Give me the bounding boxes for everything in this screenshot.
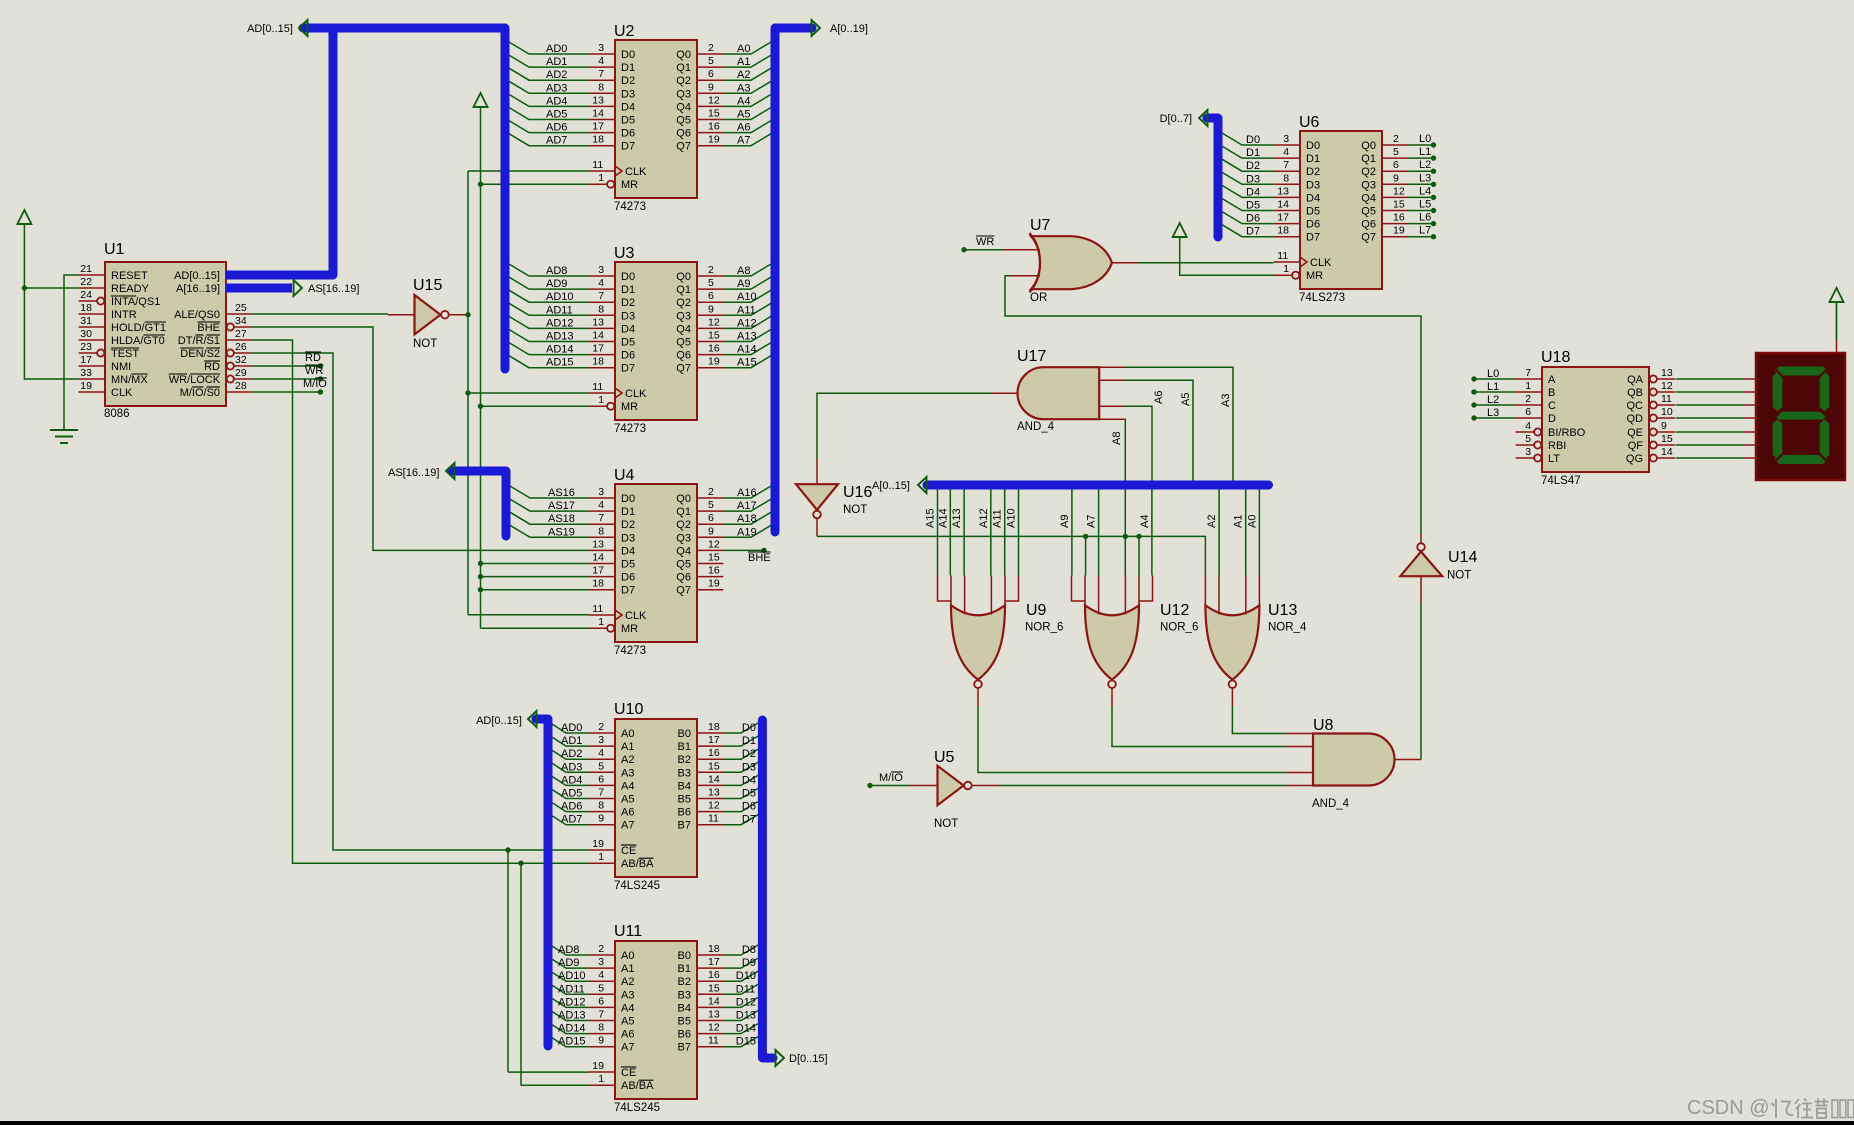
svg-text:WR/LOCK: WR/LOCK <box>169 374 221 386</box>
U10 pin B3 <box>697 771 723 773</box>
wire U18 output to display <box>1676 391 1743 393</box>
7seg pin stub <box>1750 378 1756 380</box>
wire bus tap AD4 to U10 A4 <box>552 776 589 785</box>
svg-text:A1: A1 <box>737 56 750 68</box>
wire U12 in2 drop <box>1085 536 1087 575</box>
svg-text:AD13: AD13 <box>558 1010 586 1022</box>
U17 input stub <box>1099 366 1126 368</box>
U6 pin D2 <box>1274 170 1300 172</box>
svg-text:16: 16 <box>708 121 720 133</box>
node MR net junction U3 <box>478 404 483 409</box>
svg-text:4: 4 <box>1525 420 1531 432</box>
svg-text:23: 23 <box>80 341 92 353</box>
wire bus tap AD15 to U11 A7 <box>552 1038 589 1047</box>
svg-text:14: 14 <box>592 108 604 120</box>
U10 pin A7 <box>589 824 615 826</box>
U18 left pin 5 RBI <box>1516 444 1535 446</box>
svg-text:L0: L0 <box>1419 133 1431 145</box>
svg-text:12: 12 <box>708 800 720 812</box>
svg-text:A7: A7 <box>737 135 750 147</box>
wire CLK net to U2 CLK <box>468 170 589 172</box>
wire U2 Q7 to bus tap A7 <box>723 134 771 146</box>
U9 input stub <box>964 576 966 615</box>
svg-text:19: 19 <box>592 1060 604 1072</box>
svg-text:BI/RBO: BI/RBO <box>1548 427 1586 439</box>
U4 pin D7 <box>589 589 615 591</box>
svg-text:D12: D12 <box>736 996 756 1008</box>
svg-text:B5: B5 <box>678 794 691 806</box>
svg-text:11: 11 <box>592 381 603 393</box>
U11 pin AB/BA <box>589 1084 615 1086</box>
wire WR net to U7 input1 <box>961 247 966 252</box>
svg-text:Q1: Q1 <box>676 506 691 518</box>
bus D[0..7] at U6 <box>1207 118 1218 237</box>
svg-text:AB/BA: AB/BA <box>621 858 654 870</box>
svg-text:1: 1 <box>1525 380 1531 392</box>
svg-text:QB: QB <box>1627 387 1643 399</box>
wire bus tap AD11 to U11 A3 <box>552 985 589 994</box>
svg-text:U16: U16 <box>843 484 872 501</box>
U2 pin Q0 <box>697 53 723 55</box>
svg-text:17: 17 <box>592 565 604 577</box>
svg-text:A6: A6 <box>737 122 750 134</box>
svg-text:2: 2 <box>1525 393 1531 405</box>
NOR gate U9 NOR_6 body <box>951 605 1005 679</box>
svg-text:18: 18 <box>592 578 604 590</box>
svg-text:7: 7 <box>598 787 604 799</box>
svg-text:CLK: CLK <box>625 610 647 622</box>
U7 input stubs <box>1004 249 1040 251</box>
wire MR net to U2 MR <box>481 183 589 185</box>
wire U4 Q0 to bus tap A16 <box>723 486 771 498</box>
svg-text:Q3: Q3 <box>676 532 691 544</box>
svg-text:D4: D4 <box>621 323 635 335</box>
svg-text:D2: D2 <box>1246 160 1260 172</box>
7seg segment g (middle) <box>1775 412 1827 420</box>
U1 left pin 33 <box>79 378 105 380</box>
wire U1 DT/R to U10 AB/BA and U11 AB/BA <box>252 340 588 863</box>
wire bus tap A12 down to NOR input <box>990 490 992 576</box>
U10 pin B7 <box>697 824 723 826</box>
svg-text:B4: B4 <box>678 1002 691 1014</box>
U10 pin B6 <box>697 811 723 813</box>
svg-text:A17: A17 <box>737 500 757 512</box>
svg-text:17: 17 <box>592 343 604 355</box>
svg-text:CLK: CLK <box>111 387 133 399</box>
wire bus tap A4 down to NOR input <box>1151 490 1153 576</box>
svg-text:AD4: AD4 <box>561 774 582 786</box>
svg-text:A1: A1 <box>1233 515 1245 528</box>
power VCC arrow <box>1173 223 1187 237</box>
U17 input stub <box>1099 405 1126 407</box>
svg-text:14: 14 <box>592 330 604 342</box>
wire U1 BHE to U4 D4 <box>252 327 588 550</box>
ground <box>50 429 78 431</box>
svg-text:D2: D2 <box>621 297 635 309</box>
wire U1 RESET to ground <box>64 275 79 430</box>
U2 pin MR <box>589 183 608 185</box>
svg-text:A2: A2 <box>1206 515 1218 528</box>
svg-text:MR: MR <box>621 623 638 635</box>
svg-text:HOLD/GT1: HOLD/GT1 <box>111 322 166 334</box>
svg-text:D6: D6 <box>742 801 756 813</box>
svg-text:11: 11 <box>708 1035 719 1047</box>
svg-text:5: 5 <box>708 499 714 511</box>
wire U10 B6 to bus tap D6 <box>723 802 758 812</box>
svg-text:U17: U17 <box>1017 348 1046 365</box>
wire U16 output horizontal net <box>817 536 1205 575</box>
wire U3 Q4 to bus tap A12 <box>723 316 771 328</box>
svg-text:D3: D3 <box>1306 179 1320 191</box>
node CE junction <box>505 847 510 852</box>
U12 input stub <box>1098 576 1100 615</box>
svg-text:M/IO/S0: M/IO/S0 <box>180 387 220 399</box>
inverter U5 NOT body <box>938 766 964 805</box>
wire bus tap D2 to U6 D2 <box>1222 159 1274 171</box>
U3 pin D1 <box>589 288 615 290</box>
svg-text:A0: A0 <box>621 950 634 962</box>
wire bus tap AS18 to U4 D2 <box>510 512 589 524</box>
svg-text:14: 14 <box>1661 446 1673 458</box>
svg-text:Q7: Q7 <box>676 141 691 153</box>
U18 right pin 14 QG <box>1650 454 1657 461</box>
wire U6 Q5 to L5 <box>1408 210 1431 212</box>
svg-text:15: 15 <box>1393 199 1405 211</box>
svg-text:14: 14 <box>708 995 720 1007</box>
bus terminal arrow AD[0..15] <box>299 20 308 36</box>
svg-text:13: 13 <box>592 538 604 550</box>
U3 pin D2 <box>589 301 615 303</box>
svg-text:A4: A4 <box>621 1002 634 1014</box>
U2 pin D7 <box>589 145 615 147</box>
svg-text:A18: A18 <box>737 513 757 525</box>
svg-text:31: 31 <box>80 315 92 327</box>
svg-text:8086: 8086 <box>104 408 130 420</box>
wire U18 output to display <box>1676 431 1743 433</box>
CPU U1 8086 body <box>105 262 226 406</box>
svg-text:13: 13 <box>1661 367 1673 379</box>
svg-text:A0: A0 <box>1246 515 1258 528</box>
wire U6 Q6 to L6 <box>1408 223 1431 225</box>
wire U5 output to U8 in4 <box>999 785 1286 787</box>
svg-text:15: 15 <box>1661 433 1673 445</box>
svg-text:CLK: CLK <box>1310 257 1332 269</box>
U11 pin CE <box>589 1071 615 1073</box>
wire bus tap A13 down to NOR input <box>963 490 965 576</box>
svg-text:AD9: AD9 <box>546 278 567 290</box>
U1 right pin 27 <box>226 339 252 341</box>
svg-text:D2: D2 <box>621 519 635 531</box>
U10 pin A2 <box>589 758 615 760</box>
svg-text:D: D <box>1548 413 1556 425</box>
wire U6 Q4 to L4 <box>1408 196 1431 198</box>
svg-text:18: 18 <box>708 721 720 733</box>
U17 input stub <box>1099 418 1126 420</box>
svg-text:12: 12 <box>708 538 720 550</box>
U5 output stub <box>972 785 999 787</box>
bus A[0..19] right vertical <box>775 28 812 532</box>
U17 input stub <box>1099 379 1126 381</box>
svg-text:D1: D1 <box>621 284 635 296</box>
svg-text:A4: A4 <box>621 780 634 792</box>
svg-text:Q3: Q3 <box>676 88 691 100</box>
svg-text:D9: D9 <box>742 957 756 969</box>
U6 pin Q0 <box>1382 144 1408 146</box>
svg-text:Q0: Q0 <box>676 493 691 505</box>
wire bus tap AD12 to U11 A4 <box>552 998 589 1007</box>
svg-text:U12: U12 <box>1160 602 1189 619</box>
svg-text:AD14: AD14 <box>546 344 574 356</box>
U17 output stub <box>991 392 1018 394</box>
svg-text:NMI: NMI <box>111 361 131 373</box>
svg-text:CE: CE <box>621 1067 636 1079</box>
U18 left pin 1 B <box>1516 391 1542 393</box>
svg-text:BHE: BHE <box>748 552 771 564</box>
svg-text:D10: D10 <box>736 970 756 982</box>
wire U6 Q7 to L7 <box>1408 236 1431 238</box>
svg-text:26: 26 <box>235 341 247 353</box>
svg-text:AD5: AD5 <box>546 109 567 121</box>
svg-text:D5: D5 <box>621 337 635 349</box>
svg-text:17: 17 <box>708 956 720 968</box>
svg-text:M/IO: M/IO <box>303 378 327 390</box>
svg-text:11: 11 <box>1661 393 1672 405</box>
svg-text:8: 8 <box>598 525 604 537</box>
wire bus tap D1 to U6 D1 <box>1222 146 1274 158</box>
svg-text:B0: B0 <box>678 950 691 962</box>
U15 output stub <box>449 314 466 316</box>
svg-text:U7: U7 <box>1030 217 1051 234</box>
svg-text:18: 18 <box>592 356 604 368</box>
IC U2 74273 body <box>615 40 697 198</box>
wire bus tap AD6 to U10 A6 <box>552 803 589 812</box>
svg-text:A16: A16 <box>737 487 757 499</box>
svg-text:AD4: AD4 <box>546 95 567 107</box>
svg-text:6: 6 <box>598 773 604 785</box>
svg-text:13: 13 <box>708 787 720 799</box>
svg-text:Q0: Q0 <box>676 271 691 283</box>
U2 pin Q4 <box>697 105 723 107</box>
wire U12 output to U8 in2 <box>1112 706 1286 747</box>
svg-text:8: 8 <box>1283 172 1289 184</box>
wire bus tap AD2 to U2 D2 <box>509 68 589 80</box>
svg-text:AS[16..19]: AS[16..19] <box>308 283 359 295</box>
svg-text:MR: MR <box>621 179 638 191</box>
U6 pin D0 <box>1274 144 1300 146</box>
svg-text:D2: D2 <box>1306 166 1320 178</box>
7seg segment b (top-right) <box>1820 372 1830 412</box>
wire U17 in3 from A6 <box>1126 406 1152 480</box>
U1 right pin 28 <box>226 391 252 393</box>
svg-text:2: 2 <box>708 264 714 276</box>
wire bus tap A15 down to NOR input <box>937 490 939 576</box>
wire U3 Q5 to bus tap A13 <box>723 330 771 342</box>
svg-text:NOR_6: NOR_6 <box>1160 622 1198 634</box>
svg-text:A10: A10 <box>737 291 757 303</box>
wire bus tap D4 to U6 D4 <box>1222 185 1274 197</box>
svg-text:CE: CE <box>621 845 636 857</box>
wire U1 WR with label <box>252 378 320 380</box>
wire VCC to U6 MR <box>1180 237 1274 275</box>
7-segment display body <box>1756 353 1845 480</box>
svg-text:1: 1 <box>598 851 604 863</box>
U10 pin B5 <box>697 798 723 800</box>
power VCC arrow <box>17 210 31 224</box>
U11 pin B5 <box>697 1020 723 1022</box>
svg-text:AB/BA: AB/BA <box>621 1080 654 1092</box>
svg-text:27: 27 <box>235 328 247 340</box>
wire bus tap AD10 to U3 D2 <box>509 290 589 302</box>
U10 pin A5 <box>589 798 615 800</box>
U1 left pin 19 <box>79 391 105 393</box>
svg-text:18: 18 <box>80 302 92 314</box>
U11 pin B6 <box>697 1033 723 1035</box>
svg-text:9: 9 <box>1661 420 1667 432</box>
U2 pin D0 <box>589 53 615 55</box>
wire U4 Q4 BHE output <box>723 549 764 551</box>
wire bus tap A7 down to NOR input <box>1098 490 1100 576</box>
svg-text:34: 34 <box>235 315 247 327</box>
svg-text:33: 33 <box>80 367 92 379</box>
U11 pin A6 <box>589 1033 615 1035</box>
svg-text:AD1: AD1 <box>546 56 567 68</box>
svg-text:D2: D2 <box>742 748 756 760</box>
svg-text:Q0: Q0 <box>1361 140 1376 152</box>
svg-text:D11: D11 <box>736 983 755 995</box>
bus D[0..15] right of U10/U11 <box>762 720 773 1058</box>
U11 pin B0 <box>697 954 723 956</box>
U11 pin A5 <box>589 1020 615 1022</box>
svg-text:A14: A14 <box>937 508 949 528</box>
svg-text:29: 29 <box>235 367 247 379</box>
wire U2 Q0 to bus tap A0 <box>723 42 771 54</box>
wire U17 in4 A8 net down to U12 <box>1124 419 1127 575</box>
wire bus tap AD7 to U2 D7 <box>509 134 589 146</box>
wire U4 Q2 to bus tap A18 <box>723 512 771 524</box>
svg-text:4: 4 <box>598 969 604 981</box>
U11 pin B2 <box>697 980 723 982</box>
svg-text:D3: D3 <box>742 761 756 773</box>
svg-text:2: 2 <box>598 721 604 733</box>
7seg pin stub <box>1750 404 1756 406</box>
svg-text:B2: B2 <box>678 754 691 766</box>
U13 input stub <box>1218 576 1220 615</box>
svg-text:D13: D13 <box>736 1010 756 1022</box>
svg-text:QG: QG <box>1626 453 1643 465</box>
7seg pin stub <box>1750 444 1756 446</box>
svg-text:U3: U3 <box>614 245 635 262</box>
svg-text:B2: B2 <box>678 976 691 988</box>
svg-text:D1: D1 <box>742 735 756 747</box>
svg-text:4: 4 <box>598 747 604 759</box>
svg-text:A15: A15 <box>925 508 937 528</box>
wire L2 to U18 <box>1471 402 1476 407</box>
wire U10 B2 to bus tap D2 <box>723 749 758 759</box>
svg-text:A7: A7 <box>621 1042 634 1054</box>
svg-text:HLDA/GT0: HLDA/GT0 <box>111 335 165 347</box>
svg-text:5: 5 <box>708 55 714 67</box>
U6 pin Q7 <box>1382 236 1408 238</box>
svg-text:6: 6 <box>708 68 714 80</box>
7seg pin stub <box>1750 391 1756 393</box>
U2 pin Q3 <box>697 92 723 94</box>
svg-text:A11: A11 <box>992 509 1004 528</box>
wire U2 Q5 to bus tap A5 <box>723 108 771 120</box>
wire bus tap AD9 to U3 D1 <box>509 277 589 289</box>
svg-text:B7: B7 <box>678 820 691 832</box>
svg-text:17: 17 <box>708 734 720 746</box>
U11 pin A2 <box>589 980 615 982</box>
wire U17 in1 from A3 <box>1126 367 1233 480</box>
svg-text:9: 9 <box>708 303 714 315</box>
svg-text:D7: D7 <box>621 585 635 597</box>
wire U11 B0 to bus tap D8 <box>723 945 758 955</box>
svg-text:6: 6 <box>1525 406 1531 418</box>
wire bus tap D7 to U6 D7 <box>1222 225 1274 237</box>
U9 input stub <box>950 576 952 608</box>
svg-text:4: 4 <box>1283 146 1289 158</box>
svg-text:L2: L2 <box>1487 394 1499 406</box>
svg-text:NOT: NOT <box>934 818 958 830</box>
svg-text:D0: D0 <box>621 49 635 61</box>
svg-text:11: 11 <box>592 603 603 615</box>
wire U11 B1 to bus tap D9 <box>723 958 758 968</box>
wire bus tap A11 down to NOR input <box>1004 490 1006 576</box>
U11 pin A7 <box>589 1046 615 1048</box>
bus AD[0..15] at U10/U11 <box>536 719 548 1046</box>
svg-text:A7: A7 <box>1086 515 1098 528</box>
svg-text:Q3: Q3 <box>1361 179 1376 191</box>
U4 pin Q6 <box>697 576 723 578</box>
U18 left pin 4 BI/RBO <box>1516 431 1535 433</box>
wire U10 B0 to bus tap D0 <box>723 723 758 733</box>
U14 output stub <box>1420 534 1422 543</box>
AND gate U17 AND_4 body <box>1018 367 1100 419</box>
svg-text:A5: A5 <box>621 794 634 806</box>
svg-text:A9: A9 <box>737 278 750 290</box>
svg-text:A2: A2 <box>621 976 634 988</box>
svg-text:A12: A12 <box>978 508 990 528</box>
U12 input stub <box>1072 576 1086 602</box>
wire U15 output / ALE-CLK net vertical <box>466 314 468 316</box>
wire U3 Q0 to bus tap A8 <box>723 264 771 276</box>
wire U10 B3 to bus tap D3 <box>723 762 758 772</box>
wire bus tap AD4 to U2 D4 <box>509 94 589 106</box>
svg-text:D5: D5 <box>742 788 756 800</box>
svg-text:A3: A3 <box>621 767 634 779</box>
svg-text:AD11: AD11 <box>558 983 585 995</box>
U18 right pin 11 QC <box>1650 401 1657 408</box>
svg-text:D7: D7 <box>621 363 635 375</box>
svg-text:L0: L0 <box>1487 368 1499 380</box>
U3 pin CLK <box>589 392 615 394</box>
svg-text:AD12: AD12 <box>546 317 574 329</box>
U1 left pin 23 <box>79 352 98 354</box>
U3 pin Q6 <box>697 354 723 356</box>
svg-text:9: 9 <box>1393 172 1399 184</box>
U12 input stub <box>1084 576 1086 608</box>
svg-text:AD3: AD3 <box>561 761 582 773</box>
U3 pin Q4 <box>697 327 723 329</box>
svg-text:A2: A2 <box>621 754 634 766</box>
wire U11 B4 to bus tap D12 <box>723 997 758 1007</box>
svg-text:NOT: NOT <box>413 338 437 350</box>
wire U18 output to display <box>1676 404 1743 406</box>
U4 pin Q7 <box>697 589 723 591</box>
svg-text:A5: A5 <box>1180 393 1192 406</box>
wire bus tap AD3 to U2 D3 <box>509 81 589 93</box>
svg-text:B1: B1 <box>678 963 691 975</box>
